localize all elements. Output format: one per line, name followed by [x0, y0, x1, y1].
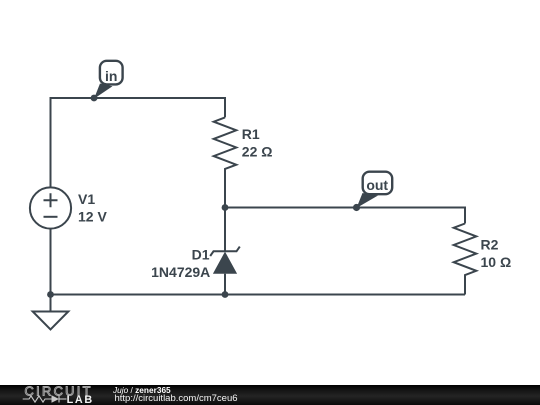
- svg-text:LAB: LAB: [67, 394, 94, 405]
- svg-text:V1: V1: [78, 191, 95, 207]
- svg-text:out: out: [366, 177, 388, 193]
- svg-text:22 Ω: 22 Ω: [242, 143, 273, 159]
- svg-text:1N4729A: 1N4729A: [151, 264, 210, 280]
- svg-text:D1: D1: [192, 246, 210, 262]
- svg-text:R1: R1: [242, 126, 260, 142]
- svg-text:12 V: 12 V: [78, 209, 107, 225]
- svg-text:in: in: [105, 68, 117, 84]
- svg-text:http://circuitlab.com/cm7ceu6: http://circuitlab.com/cm7ceu6: [115, 393, 238, 404]
- svg-text:R2: R2: [481, 236, 499, 252]
- svg-text:10 Ω: 10 Ω: [481, 254, 512, 270]
